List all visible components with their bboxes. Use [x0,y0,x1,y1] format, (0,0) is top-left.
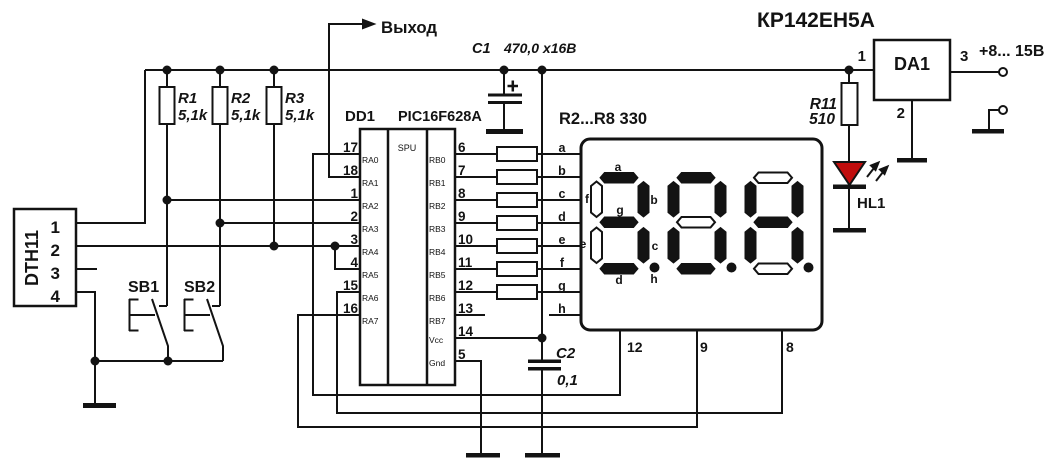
svg-text:Gnd: Gnd [429,358,445,368]
svg-text:f: f [560,256,565,270]
svg-text:1: 1 [858,48,866,65]
svg-text:RA0: RA0 [362,155,379,165]
svg-text:4: 4 [51,287,61,306]
svg-text:510: 510 [809,111,835,128]
svg-text:RA4: RA4 [362,247,379,257]
svg-text:12: 12 [458,278,473,293]
svg-text:DD1: DD1 [345,108,375,125]
svg-text:+8... 15В: +8... 15В [979,43,1044,60]
svg-text:b: b [558,164,566,178]
svg-text:5,1k: 5,1k [178,107,208,124]
svg-text:R1: R1 [178,90,197,107]
svg-text:RA1: RA1 [362,178,379,188]
svg-text:16: 16 [343,301,359,316]
svg-text:10: 10 [458,232,473,247]
svg-text:RB5: RB5 [429,270,446,280]
svg-text:a: a [559,141,567,155]
svg-text:RB0: RB0 [429,155,446,165]
svg-text:3: 3 [350,232,358,247]
svg-text:RA3: RA3 [362,224,379,234]
svg-text:8: 8 [786,339,794,355]
svg-text:PIC16F628A: PIC16F628A [398,109,482,125]
svg-text:h: h [558,302,566,316]
svg-text:R2...R8 330: R2...R8 330 [559,110,647,128]
svg-text:c: c [559,187,566,201]
svg-text:e: e [580,237,587,251]
svg-text:RB4: RB4 [429,247,446,257]
svg-text:h: h [650,272,657,286]
svg-text:13: 13 [458,301,474,316]
svg-text:d: d [558,210,566,224]
svg-text:RA7: RA7 [362,316,379,326]
svg-text:b: b [650,193,657,207]
svg-text:HL1: HL1 [857,195,885,212]
svg-text:1: 1 [350,186,358,201]
svg-text:5,1k: 5,1k [285,107,315,124]
svg-text:c: c [652,239,659,253]
svg-text:2: 2 [897,105,905,122]
svg-text:SB1: SB1 [128,279,159,296]
svg-text:RB3: RB3 [429,224,446,234]
svg-text:C2: C2 [556,345,576,362]
svg-text:5: 5 [458,347,466,362]
svg-text:8: 8 [458,186,466,201]
svg-text:C1: C1 [472,41,491,57]
svg-text:2: 2 [350,209,358,224]
svg-text:2: 2 [51,241,60,260]
svg-text:0,1: 0,1 [557,372,578,389]
svg-text:f: f [585,192,590,206]
svg-text:11: 11 [458,255,473,270]
svg-text:e: e [559,233,566,247]
svg-text:17: 17 [343,140,358,155]
svg-text:7: 7 [458,163,466,178]
svg-text:15: 15 [343,278,359,293]
svg-text:g: g [616,203,623,217]
svg-text:3: 3 [960,48,968,65]
svg-text:a: a [615,160,622,174]
svg-text:КР142ЕН5А: КР142ЕН5А [757,9,875,32]
svg-text:RB6: RB6 [429,293,446,303]
svg-text:d: d [615,273,622,287]
svg-text:12: 12 [627,339,643,355]
svg-text:6: 6 [458,140,466,155]
svg-text:Выход: Выход [381,18,437,37]
svg-text:SB2: SB2 [184,279,215,296]
svg-text:RA6: RA6 [362,293,379,303]
svg-text:DA1: DA1 [894,54,930,74]
svg-text:RA2: RA2 [362,201,379,211]
svg-text:Vcc: Vcc [429,335,444,345]
svg-text:3: 3 [51,264,60,283]
svg-text:RB7: RB7 [429,316,446,326]
svg-text:5,1k: 5,1k [231,107,261,124]
svg-text:9: 9 [458,209,466,224]
svg-text:SPU: SPU [398,143,417,153]
svg-text:RB2: RB2 [429,201,446,211]
svg-text:9: 9 [700,339,708,355]
svg-text:R2: R2 [231,90,251,107]
svg-text:RB1: RB1 [429,178,446,188]
svg-text:18: 18 [343,163,359,178]
svg-text:DTH11: DTH11 [22,230,42,286]
svg-text:g: g [558,279,566,293]
svg-text:470,0 x16В: 470,0 x16В [503,40,576,56]
svg-text:4: 4 [350,255,358,270]
svg-text:14: 14 [458,324,474,339]
svg-text:RA5: RA5 [362,270,379,280]
svg-text:1: 1 [51,218,60,237]
svg-text:R3: R3 [285,90,305,107]
